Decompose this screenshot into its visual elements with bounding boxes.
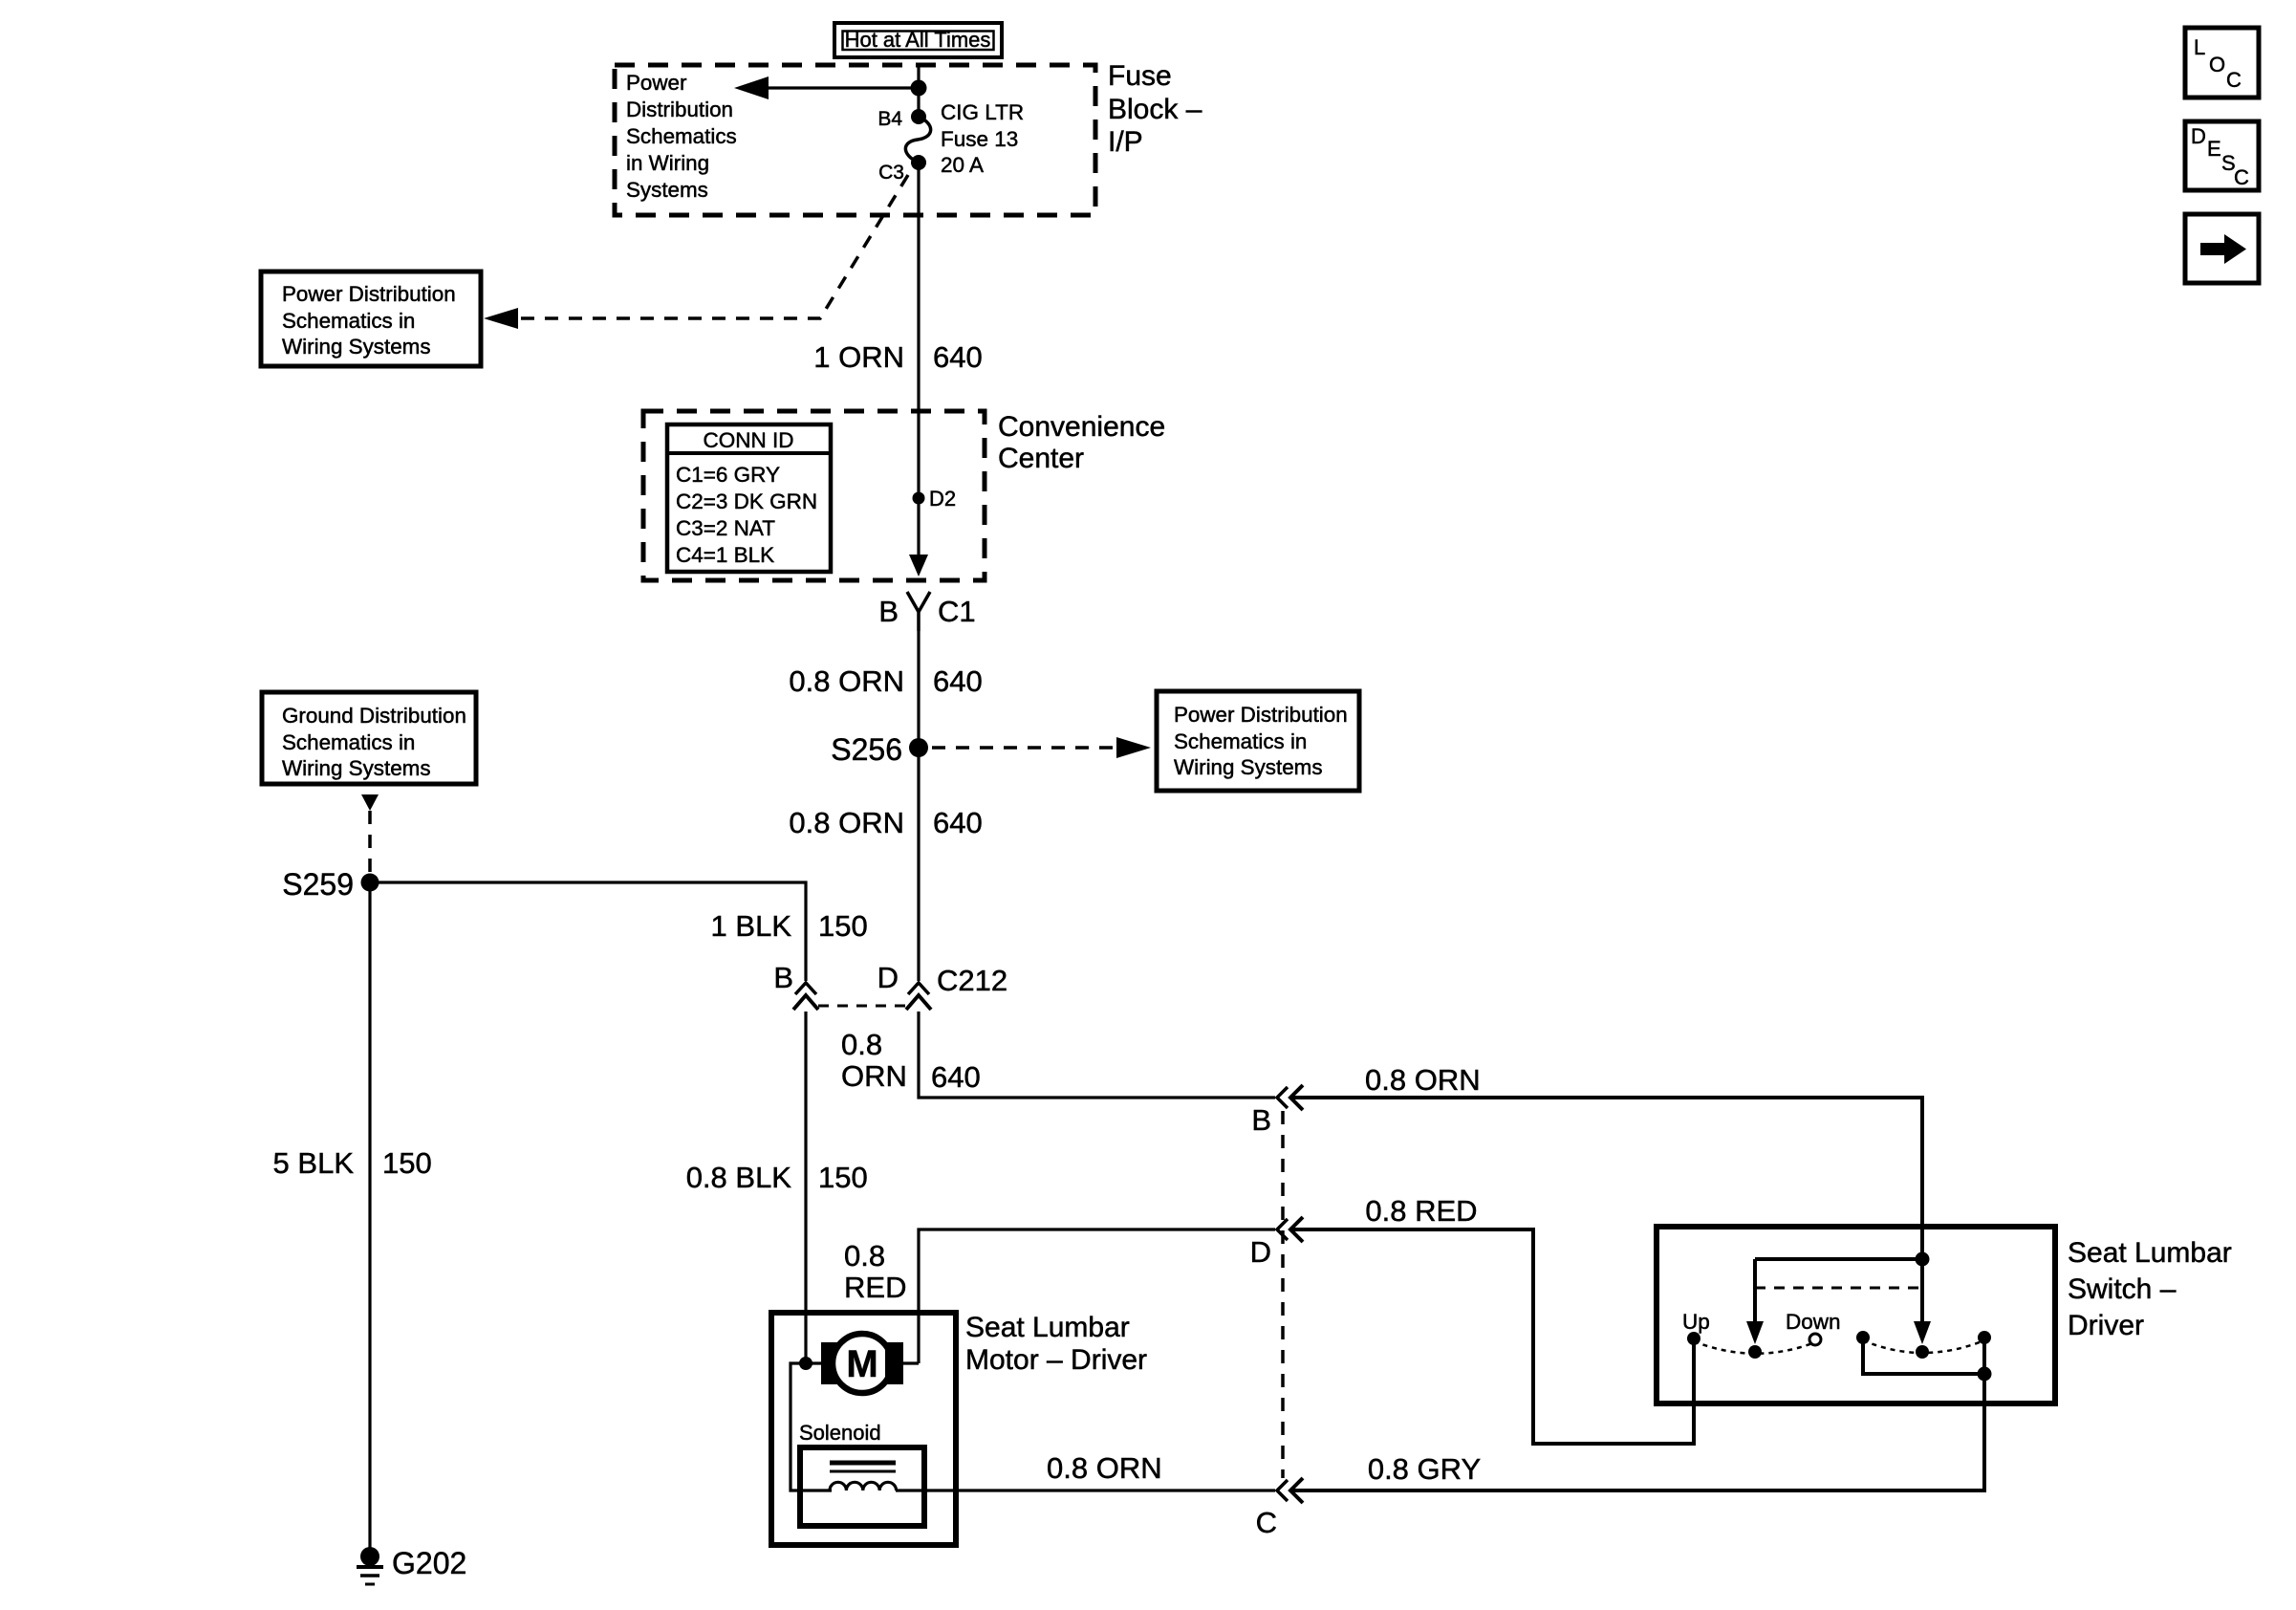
- svg-text:Seat Lumbar: Seat Lumbar: [965, 1312, 1130, 1343]
- svg-text:20 A: 20 A: [941, 153, 984, 177]
- svg-text:Wiring Systems: Wiring Systems: [282, 335, 431, 359]
- motor assembly box: Seat Lumbar Motor - Driver: [771, 1313, 956, 1545]
- icon: next arrow button: [2185, 214, 2259, 283]
- CONN ID table: [667, 424, 831, 572]
- wire: dashed stub from ground ref box to S259: [361, 794, 379, 811]
- svg-text:Switch –: Switch –: [2068, 1273, 2177, 1305]
- switch internal: left pole arrow: [1753, 1259, 1757, 1323]
- svg-text:Systems: Systems: [626, 178, 708, 202]
- node D2: [913, 492, 925, 505]
- switch internal: right pole arrow: [1920, 1259, 1924, 1323]
- svg-text:CIG LTR: CIG LTR: [941, 100, 1024, 124]
- wire: 0.8 ORN solenoid to switch connector C: [896, 1489, 1275, 1491]
- svg-text:Solenoid: Solenoid: [799, 1421, 881, 1445]
- svg-text:Power: Power: [626, 71, 687, 95]
- wire: dashed reference from fuse to power distribution box: [492, 175, 908, 318]
- svg-text:O: O: [2209, 53, 2225, 76]
- svg-text:0.8: 0.8: [841, 1028, 882, 1061]
- connector arrow into C1: [909, 555, 928, 577]
- connector C1 terminal Y: [907, 592, 930, 631]
- svg-text:Distribution: Distribution: [626, 98, 733, 121]
- svg-text:Driver: Driver: [2068, 1310, 2144, 1341]
- wire: S259 down to G202: [368, 882, 371, 1556]
- svg-text:5 BLK: 5 BLK: [273, 1146, 355, 1180]
- svg-text:C: C: [2234, 165, 2249, 189]
- switch wiper arcs (dashed): [1694, 1341, 1815, 1354]
- svg-text:B: B: [773, 961, 793, 994]
- ref box: Power Distribution Schematics in Wiring Systems (top left): [261, 272, 481, 366]
- svg-text:Wiring Systems: Wiring Systems: [282, 756, 431, 780]
- in-line connector to switch: pin C: [1256, 1478, 1303, 1539]
- svg-text:Schematics in: Schematics in: [282, 730, 415, 754]
- note: Power Distribution Schematics in Wiring Systems (inside fuse block): [626, 71, 737, 202]
- svg-text:C212: C212: [937, 964, 1007, 997]
- svg-text:D2: D2: [929, 487, 956, 511]
- splice S259: [361, 874, 379, 892]
- icon: DESC button: [2185, 121, 2259, 190]
- svg-text:Ground Distribution: Ground Distribution: [282, 704, 466, 728]
- svg-text:RED: RED: [844, 1271, 906, 1304]
- svg-text:D: D: [877, 961, 899, 994]
- wire: arrow to power distribution (left): [765, 86, 919, 89]
- svg-text:Power Distribution: Power Distribution: [1174, 703, 1348, 727]
- switch internal: feed bar: [1755, 1257, 1922, 1261]
- svg-text:640: 640: [933, 340, 983, 374]
- svg-text:B: B: [1251, 1103, 1271, 1137]
- wire: 0.8 BLK 150 from C212-B down to motor: [804, 1012, 807, 1364]
- fuse F13 CIG LTR 20A: [877, 100, 1024, 184]
- svg-text:640: 640: [933, 806, 983, 839]
- node: motor feed junction: [799, 1357, 812, 1370]
- svg-text:C1=6 GRY: C1=6 GRY: [676, 463, 780, 487]
- svg-text:B4: B4: [877, 108, 902, 130]
- wire: C1 to C212 via S256: [917, 631, 920, 981]
- wire: 0.8 GRY from switch: [1290, 1374, 1984, 1490]
- svg-text:CONN ID: CONN ID: [704, 428, 794, 452]
- wire: 0.8 ORN to switch: [1290, 1098, 1922, 1259]
- switch contacts: [1687, 1332, 1700, 1345]
- svg-text:M: M: [846, 1343, 877, 1385]
- wire: dashed arrow S256 to power distribution: [932, 746, 1116, 750]
- svg-text:0.8 ORN: 0.8 ORN: [1365, 1063, 1481, 1097]
- svg-text:Schematics in: Schematics in: [1174, 729, 1307, 753]
- svg-text:Motor – Driver: Motor – Driver: [965, 1344, 1147, 1376]
- svg-text:G202: G202: [392, 1546, 466, 1580]
- wire: 0.8 ORN 640 from C212-D to switch connector B: [919, 1012, 1275, 1098]
- svg-text:0.8 ORN: 0.8 ORN: [1047, 1451, 1162, 1485]
- svg-text:Down: Down: [1786, 1310, 1841, 1334]
- svg-text:S256: S256: [831, 732, 902, 767]
- svg-text:Convenience: Convenience: [998, 411, 1165, 443]
- wire: through convenience center: [917, 411, 920, 558]
- svg-text:D: D: [1250, 1235, 1271, 1269]
- svg-text:I/P: I/P: [1108, 126, 1143, 158]
- switch box: Seat Lumbar Switch - Driver: [1657, 1227, 2055, 1403]
- svg-text:Fuse: Fuse: [1108, 60, 1172, 92]
- svg-text:Hot at All Times: Hot at All Times: [845, 28, 991, 52]
- svg-text:Block –: Block –: [1108, 94, 1202, 125]
- splice S256: [909, 738, 928, 757]
- svg-text:Up: Up: [1682, 1310, 1710, 1334]
- label: Fuse Block - I/P: [1108, 60, 1202, 158]
- svg-text:0.8 RED: 0.8 RED: [1365, 1194, 1477, 1228]
- wire: solenoid feed inside motor box: [791, 1363, 832, 1490]
- svg-text:C3: C3: [878, 162, 904, 184]
- svg-text:1 ORN: 1 ORN: [813, 340, 904, 374]
- in-line connector to switch: pin D: [1250, 1217, 1303, 1269]
- svg-text:640: 640: [931, 1060, 981, 1094]
- fuse block I/P dashed box: [615, 65, 1095, 215]
- svg-text:Power Distribution: Power Distribution: [282, 282, 456, 306]
- switch internal: output link: [1863, 1338, 1984, 1374]
- svg-text:Seat Lumbar: Seat Lumbar: [2068, 1237, 2232, 1269]
- svg-text:C: C: [1256, 1506, 1277, 1539]
- svg-text:C: C: [2226, 68, 2242, 92]
- svg-text:L: L: [2194, 35, 2205, 59]
- svg-text:150: 150: [818, 909, 868, 943]
- svg-text:E: E: [2207, 137, 2221, 161]
- label: Convenience Center: [998, 411, 1165, 474]
- wire: battery feed into fuse block: [917, 65, 920, 117]
- icon: LOC button: [2185, 28, 2259, 98]
- svg-text:150: 150: [818, 1161, 868, 1194]
- svg-text:C2=3 DK GRN: C2=3 DK GRN: [676, 490, 817, 513]
- svg-text:Center: Center: [998, 443, 1084, 474]
- ref box: Ground Distribution Schematics in Wiring Systems: [262, 692, 476, 784]
- svg-text:1 BLK: 1 BLK: [711, 909, 792, 943]
- svg-text:640: 640: [933, 664, 983, 698]
- svg-text:0.8: 0.8: [844, 1239, 885, 1273]
- svg-text:B: B: [878, 595, 899, 628]
- svg-text:0.8 ORN: 0.8 ORN: [789, 664, 904, 698]
- svg-text:Schematics in: Schematics in: [282, 309, 415, 333]
- wire: dashed connector body line: [1281, 1111, 1285, 1478]
- svg-text:150: 150: [382, 1146, 432, 1180]
- svg-text:in Wiring: in Wiring: [626, 151, 709, 175]
- wire: S259 branch right then down to C212 pin B: [370, 882, 806, 981]
- svg-text:0.8 BLK: 0.8 BLK: [686, 1161, 792, 1194]
- svg-text:ORN: ORN: [841, 1059, 907, 1093]
- switch internal: dashed tie bar: [1755, 1287, 1922, 1290]
- svg-text:Schematics: Schematics: [626, 124, 737, 148]
- banner: Hot at All Times: [834, 23, 1002, 57]
- motor M driver: [806, 1334, 919, 1393]
- wire: 0.8 RED to switch Up contact: [1290, 1229, 1694, 1444]
- convenience center dashed box: [643, 411, 985, 580]
- ground G202: [357, 1546, 466, 1584]
- svg-text:Fuse 13: Fuse 13: [941, 127, 1018, 151]
- wire: fuse output to convenience center: [917, 163, 920, 411]
- solenoid: [799, 1421, 924, 1526]
- svg-text:0.8 GRY: 0.8 GRY: [1368, 1452, 1481, 1486]
- svg-text:C3=2 NAT: C3=2 NAT: [676, 516, 775, 540]
- ref box: Power Distribution Schematics in Wiring Systems (right of S256): [1157, 691, 1359, 791]
- svg-text:0.8 ORN: 0.8 ORN: [789, 806, 904, 839]
- in-line connector to switch: pin B: [1251, 1085, 1303, 1137]
- wire: 0.8 RED from motor up to switch connector D: [919, 1229, 1275, 1363]
- wire: Up contact down through box: [1692, 1338, 1696, 1444]
- svg-text:S259: S259: [282, 867, 354, 902]
- svg-text:C4=1 BLK: C4=1 BLK: [676, 543, 774, 567]
- svg-text:D: D: [2191, 124, 2206, 148]
- svg-text:Wiring Systems: Wiring Systems: [1174, 755, 1323, 779]
- connector C212: [773, 961, 1007, 1010]
- svg-text:C1: C1: [938, 595, 976, 628]
- node: junction at fuse feed: [911, 80, 927, 97]
